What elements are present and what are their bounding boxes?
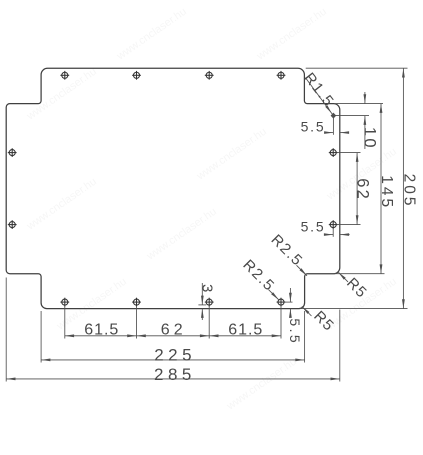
- dim 3 bottom: [198, 283, 206, 320]
- hole H2: [60, 298, 69, 307]
- svg-text:225: 225: [154, 346, 196, 365]
- svg-text:5.5: 5.5: [301, 219, 326, 235]
- svg-text:205: 205: [401, 174, 418, 209]
- svg-text:62: 62: [161, 322, 187, 339]
- svg-text:5.5: 5.5: [301, 119, 326, 135]
- svg-text:285: 285: [154, 365, 196, 384]
- dim 5.5 top right: [325, 116, 349, 135]
- hole H6: [205, 298, 214, 307]
- hole H10: [329, 148, 338, 157]
- svg-text:R2.5: R2.5: [239, 256, 278, 295]
- dim 145 right: [334, 104, 385, 274]
- svg-text:61.5: 61.5: [228, 322, 263, 339]
- hole H4: [132, 298, 141, 307]
- plate outline: [6, 68, 340, 308]
- dim 205 right: [300, 68, 408, 308]
- svg-text:R1.5: R1.5: [300, 70, 337, 111]
- dim 5.5 middle right: [325, 228, 350, 237]
- hole H1: [60, 71, 69, 80]
- svg-text:61.5: 61.5: [84, 322, 119, 339]
- dim chain 61.5 / 62 / 61.5: [65, 306, 281, 339]
- leader R2.5 upper: [297, 265, 308, 276]
- dim 5.5 bottom right rotated: [285, 288, 293, 317]
- hole H9: [8, 148, 17, 157]
- svg-text:www.cnclaser.hu: www.cnclaser.hu: [24, 176, 99, 233]
- hole H8: [277, 298, 286, 307]
- dim 10 right: [333, 92, 369, 149]
- svg-text:www.cnclaser.hu: www.cnclaser.hu: [114, 6, 189, 63]
- hole H3: [132, 71, 141, 80]
- hole H5: [205, 71, 214, 80]
- dim 225: [41, 311, 305, 363]
- svg-text:www.cnclaser.hu: www.cnclaser.hu: [144, 206, 219, 263]
- hole H11: [8, 220, 17, 229]
- leader R2.5 lower: [269, 290, 279, 300]
- leader R1.5: [305, 78, 333, 116]
- hole H7: [277, 71, 286, 80]
- svg-text:10: 10: [361, 127, 379, 150]
- svg-text:145: 145: [378, 175, 395, 210]
- hole H12: [329, 220, 338, 229]
- svg-text:5.5: 5.5: [287, 318, 303, 345]
- leader R5 lower: [302, 306, 312, 316]
- svg-text:62: 62: [353, 178, 371, 201]
- leader R5 upper: [338, 272, 348, 282]
- dim 285: [6, 278, 340, 382]
- svg-text:www.cnclaser.hu: www.cnclaser.hu: [254, 6, 329, 63]
- svg-text:www.cnclaser.hu: www.cnclaser.hu: [194, 126, 269, 183]
- svg-text:www.cnclaser.hu: www.cnclaser.hu: [224, 356, 299, 413]
- faint diagonal watermark: [24, 6, 399, 413]
- svg-text:R2.5: R2.5: [268, 231, 307, 270]
- svg-text:3: 3: [198, 284, 215, 292]
- dim 62 right: [337, 153, 361, 225]
